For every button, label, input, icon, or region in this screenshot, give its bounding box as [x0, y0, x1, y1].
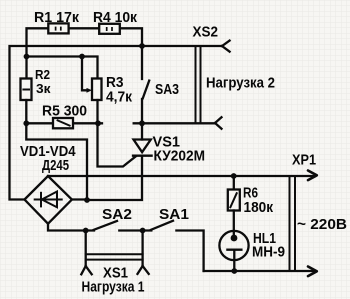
- R3 wiper arrowhead: [87, 88, 93, 93]
- junction node SA3/VS1: [139, 120, 145, 126]
- svg-text:R2: R2: [35, 67, 50, 82]
- connector XP1 double bars: [290, 176, 296, 271]
- svg-text:Нагрузка 1: Нагрузка 1: [82, 280, 145, 296]
- svg-text:R5 300: R5 300: [42, 104, 87, 120]
- switch SA2: [94, 221, 117, 230]
- junction node R4/SA3: [139, 43, 145, 49]
- svg-text:SA3: SA3: [155, 82, 179, 98]
- svg-text:XS2: XS2: [193, 25, 219, 41]
- resistor R6: [228, 176, 240, 236]
- junction node R1/R2: [24, 54, 30, 60]
- connector XS2 fork top: [222, 41, 230, 52]
- resistor R1: [48, 23, 68, 33]
- wire bridge bottom to switch row: [48, 224, 94, 231]
- wire bridge right vertex to cathode: [72, 198, 87, 200]
- wire node row y56.5: [27, 57, 98, 79]
- arrowhead XP1 bottom: [308, 267, 317, 277]
- connector XS2 fork bottom: [215, 117, 222, 128]
- wire XS2 bottom y123: [134, 122, 215, 124]
- resistor R5: [53, 118, 73, 128]
- wire between SA2 and SA1: [119, 229, 151, 231]
- junction node XS1 left: [83, 228, 89, 234]
- svg-text:XP1: XP1: [292, 153, 316, 169]
- connector XS1 prong right: [138, 231, 149, 274]
- svg-text:SA1: SA1: [159, 207, 189, 223]
- junction node wiper: [79, 54, 85, 60]
- svg-text:R1 17к: R1 17к: [34, 10, 80, 26]
- resistor R4: [99, 24, 120, 34]
- svg-text:180к: 180к: [244, 200, 274, 216]
- connector XS2 double bars: [196, 46, 201, 123]
- wire R3 bottom / gate branch: [98, 100, 136, 167]
- wire top row R1-R4 with corners: [27, 28, 143, 79]
- diode bridge VD1-VD4 diamond: [25, 176, 72, 224]
- connector XS1 prong left: [81, 231, 91, 275]
- junction node R6 top: [231, 173, 237, 179]
- wire R5 row y123.3: [26, 122, 102, 124]
- resistor R3 potentiometer body: [92, 79, 102, 101]
- svg-text:Д245: Д245: [42, 158, 69, 174]
- wire AC top rail y46 to XS2: [10, 46, 223, 200]
- svg-text:SA2: SA2: [102, 207, 132, 223]
- svg-text:~ 220В: ~ 220В: [297, 217, 347, 233]
- svg-text:Нагрузка 2: Нагрузка 2: [206, 76, 275, 92]
- connector XS1 double bars: [86, 254, 143, 259]
- wire AC mid rail y176 bridge to XP1: [48, 175, 315, 177]
- switch SA3: [142, 46, 149, 123]
- switch SA1: [151, 221, 173, 230]
- wire R2 bottom to bridge output node: [26, 100, 87, 200]
- junction node R5/R3 gate: [95, 120, 101, 126]
- neon lamp dot electrode: [231, 235, 238, 242]
- svg-text:3к: 3к: [36, 81, 51, 96]
- svg-text:КУ202М: КУ202М: [154, 149, 206, 165]
- arrowhead XP1 top: [308, 171, 317, 181]
- thyristor VS1: [87, 123, 152, 200]
- svg-text:R4 10к: R4 10к: [93, 10, 138, 26]
- resistor R2: [21, 79, 32, 101]
- R3 wiper arm: [82, 57, 88, 91]
- junction node bridge plus: [84, 197, 90, 203]
- wire AC bottom rail y271: [204, 270, 315, 272]
- svg-text:МН-9: МН-9: [252, 245, 285, 261]
- wire SA1 to bottom rail: [176, 231, 203, 272]
- bridge diode symbol: [35, 192, 62, 208]
- junction node HL1 bottom: [231, 268, 237, 274]
- junction node XS1 right: [140, 228, 146, 234]
- neon lamp HL1: [219, 231, 248, 271]
- junction node R2/R5: [23, 120, 29, 126]
- svg-text:4,7к: 4,7к: [106, 90, 133, 106]
